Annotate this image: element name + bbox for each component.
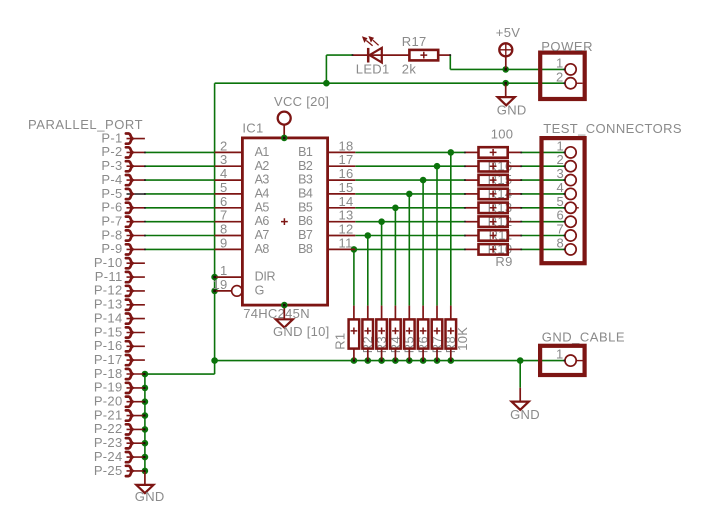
svg-text:1: 1 — [556, 55, 564, 70]
svg-text:P-20: P-20 — [94, 394, 123, 409]
wire net B2 row — [355, 165, 465, 167]
junction B7 drop — [365, 232, 372, 239]
junction pull-down R5 to GND — [406, 357, 413, 364]
svg-text:GND: GND — [135, 489, 165, 504]
svg-text:B1: B1 — [298, 145, 313, 159]
svg-text:P-14: P-14 — [94, 310, 123, 325]
svg-text:G: G — [255, 284, 264, 298]
wire GND net: top rail to POWER pin 2 — [215, 82, 565, 84]
svg-text:VCC [20]: VCC [20] — [274, 94, 329, 109]
svg-text:P-7: P-7 — [101, 214, 122, 229]
svg-text:4: 4 — [557, 180, 565, 195]
wire net B8 drop to pull-down — [353, 249, 355, 305]
wire net B2 drop to pull-down — [436, 166, 438, 305]
wire net B1 drop to pull-down — [450, 152, 452, 305]
svg-text:IC1: IC1 — [242, 121, 263, 136]
IC1 pin 16 B3 — [328, 179, 356, 181]
svg-text:17: 17 — [339, 152, 354, 167]
svg-text:12: 12 — [339, 222, 354, 237]
svg-text:1: 1 — [220, 263, 228, 278]
IC1 pin 11 B8 — [328, 248, 356, 250]
junction pull-down R8 to GND — [448, 357, 455, 364]
svg-text:GND: GND — [497, 102, 527, 117]
svg-text:3: 3 — [557, 166, 565, 181]
svg-text:16: 16 — [339, 166, 354, 181]
svg-text:3: 3 — [220, 152, 228, 167]
IC1 pin 7 A6 — [215, 221, 243, 223]
junction VCC pin — [281, 135, 288, 142]
svg-text:2: 2 — [220, 138, 228, 153]
TEST connector pin 7 — [565, 230, 576, 241]
TEST connector pin 8 — [565, 244, 576, 255]
junction GND pin — [281, 302, 288, 309]
svg-text:2k: 2k — [402, 61, 417, 76]
junction P-20 to GND bus — [142, 398, 149, 405]
junction GND rail corner — [211, 357, 218, 364]
svg-text:R1: R1 — [332, 333, 347, 350]
op-amp/buffer IC1 74HC245N body — [242, 138, 327, 305]
wire net B5 drop to pull-down — [394, 208, 396, 306]
svg-text:R9: R9 — [495, 254, 512, 269]
svg-text:7: 7 — [557, 222, 565, 237]
wire to TEST pin 2 — [521, 165, 565, 167]
IC1 pin 14 B5 — [328, 207, 356, 209]
svg-text:P-24: P-24 — [94, 449, 123, 464]
svg-text:+5V: +5V — [496, 25, 520, 40]
svg-text:14: 14 — [339, 194, 354, 209]
svg-text:P-6: P-6 — [101, 200, 122, 215]
junction pull-down R7 to GND — [434, 357, 441, 364]
svg-text:P-17: P-17 — [94, 352, 123, 367]
IC1 pin 15 B4 — [328, 193, 356, 195]
svg-text:P-12: P-12 — [94, 283, 123, 298]
junction pull-down R2 to GND — [365, 357, 372, 364]
wire net D1 (P-3 to A2) — [145, 165, 215, 167]
junction P-18 to GND bus — [142, 371, 149, 378]
svg-text:POWER: POWER — [541, 39, 593, 54]
wire joints (dark transition pixels) — [283, 137, 286, 140]
svg-text:P-15: P-15 — [94, 324, 123, 339]
wire net B3 row — [355, 179, 465, 181]
svg-text:P-5: P-5 — [101, 186, 122, 201]
wire net D5 (P-7 to A6) — [145, 221, 215, 223]
TEST connector pin 4 — [565, 188, 576, 199]
IC1 origin cross — [281, 218, 288, 225]
svg-text:P-19: P-19 — [94, 380, 123, 395]
svg-text:5: 5 — [220, 180, 228, 195]
svg-text:A2: A2 — [255, 159, 270, 173]
wire to TEST pin 4 — [521, 193, 565, 195]
connector POWER — [540, 53, 585, 99]
junction P-21 to GND bus — [142, 412, 149, 419]
junction B6 drop — [378, 218, 385, 225]
ground under GND_CABLE — [519, 388, 521, 402]
svg-text:TEST_CONNECTORS: TEST_CONNECTORS — [543, 121, 682, 136]
svg-text:P-22: P-22 — [94, 421, 123, 436]
svg-text:11: 11 — [339, 235, 353, 250]
wire net D0 (P-2 to A1) — [145, 151, 215, 153]
IC1 pin 13 B6 — [328, 221, 356, 223]
wire net B7 drop to pull-down — [367, 236, 369, 306]
wire net B1 row — [355, 151, 465, 153]
svg-text:LED1: LED1 — [356, 62, 390, 77]
wire net B7 row — [355, 235, 465, 237]
svg-text:6: 6 — [220, 194, 228, 209]
svg-text:18: 18 — [339, 138, 354, 153]
svg-text:B2: B2 — [298, 159, 313, 173]
resistor R17 — [409, 50, 438, 61]
junction pull-down R3 to GND — [378, 357, 385, 364]
wire net B3 drop to pull-down — [422, 180, 424, 306]
svg-text:8: 8 — [557, 235, 565, 250]
svg-text:4: 4 — [220, 166, 228, 181]
junction G to GND rail — [211, 288, 218, 295]
svg-text:B7: B7 — [298, 228, 313, 242]
wire to TEST pin 5 — [521, 207, 565, 209]
IC1 pin 17 B2 — [328, 165, 356, 167]
wire net B4 drop to pull-down — [408, 194, 410, 306]
IC1 pin 10 GND — [283, 305, 285, 319]
svg-text:2: 2 — [556, 69, 564, 84]
svg-text:1: 1 — [557, 138, 565, 153]
wire GND net: P-18..P-25 bus — [144, 374, 146, 473]
wire net D2 (P-4 to A3) — [145, 179, 215, 181]
TEST connector pin 5 — [571, 207, 579, 209]
LED LED1 — [353, 54, 410, 56]
svg-text:P-8: P-8 — [101, 227, 122, 242]
svg-text:8: 8 — [220, 222, 228, 237]
junction P-22 to GND bus — [142, 426, 149, 433]
svg-text:A8: A8 — [255, 242, 270, 256]
TEST connector pin 3 — [565, 175, 576, 186]
svg-text:P-10: P-10 — [94, 255, 123, 270]
junction B4 drop — [406, 191, 413, 198]
svg-text:A3: A3 — [255, 173, 270, 187]
svg-text:P-23: P-23 — [94, 435, 123, 450]
junction P-25 to GND bus — [142, 468, 149, 475]
svg-text:P-16: P-16 — [94, 338, 123, 353]
TEST connector pin 6 — [565, 216, 576, 227]
junction GND_CABLE drop — [517, 357, 524, 364]
svg-text:B5: B5 — [298, 200, 313, 214]
IC1 pin 2 A1 — [215, 151, 243, 153]
svg-text:GND [10]: GND [10] — [273, 324, 330, 339]
wire net B6 drop to pull-down — [381, 222, 383, 306]
junction GND rail / LED cathode — [323, 80, 330, 87]
wire to TEST pin 1 — [521, 151, 565, 153]
resistor R16 (top of array) row 1 — [465, 151, 478, 153]
IC1 pin 5 A4 — [215, 193, 243, 195]
svg-text:P-25: P-25 — [94, 463, 123, 478]
ground under POWER — [505, 83, 507, 97]
svg-text:100: 100 — [491, 126, 514, 141]
svg-text:B3: B3 — [298, 173, 313, 187]
svg-text:A1: A1 — [255, 145, 270, 159]
svg-text:1: 1 — [556, 346, 564, 361]
junction pull-down R6 to GND — [420, 357, 427, 364]
wire GND net: GND_CABLE drop — [519, 361, 521, 388]
wire net B8 row — [355, 248, 465, 250]
wire GND net: vertical rail — [214, 83, 216, 360]
svg-text:R17: R17 — [402, 34, 427, 49]
svg-text:A6: A6 — [255, 214, 270, 228]
wire net B5 row — [355, 207, 465, 209]
IC1 pin 1 DIR — [215, 276, 243, 278]
svg-text:7: 7 — [220, 208, 228, 223]
wire GND net: LED cathode drop to GND rail — [326, 54, 352, 56]
wire GND net: bottom rail to GND_CABLE — [215, 360, 565, 362]
junction +5V / POWER pin 1 — [502, 66, 509, 73]
wire net D4 (P-6 to A5) — [145, 207, 215, 209]
ground under P-25 — [144, 471, 146, 485]
wire net D3 (P-5 to A4) — [146, 193, 215, 195]
wire to TEST pin 6 — [521, 221, 565, 223]
svg-text:P-9: P-9 — [101, 241, 122, 256]
junction DIR to GND rail — [211, 274, 218, 281]
svg-text:15: 15 — [339, 180, 354, 195]
TEST connector pin 1 — [565, 147, 576, 158]
junction pull-down R4 to GND — [392, 357, 399, 364]
svg-text:6: 6 — [557, 208, 565, 223]
wire net D7 (P-9 to A8) — [145, 248, 215, 250]
svg-text:P-3: P-3 — [101, 158, 122, 173]
svg-text:GND_CABLE: GND_CABLE — [542, 330, 625, 345]
wire to TEST pin 3 — [521, 179, 565, 181]
wire to TEST pin 8 — [521, 248, 565, 250]
wire net D6 (P-8 to A7) — [145, 235, 215, 237]
IC1 pin 8 A7 — [215, 235, 243, 237]
svg-text:DIR: DIR — [255, 270, 276, 284]
svg-text:A5: A5 — [255, 200, 270, 214]
junction B2 drop — [434, 163, 441, 170]
IC1 pin 6 A5 — [215, 207, 243, 209]
resistor R1 10k pull-down — [353, 306, 355, 320]
junction B8 drop — [351, 246, 358, 253]
junction pull-down R1 to GND — [351, 357, 358, 364]
junction GND rail / POWER pin 2 — [502, 80, 509, 87]
junction B3 drop — [420, 177, 427, 184]
svg-text:2: 2 — [557, 152, 565, 167]
svg-text:P-2: P-2 — [101, 144, 122, 159]
svg-text:B8: B8 — [298, 242, 313, 256]
svg-text:GND: GND — [510, 407, 540, 422]
ground symbol at IC1 pin 10 — [276, 319, 293, 327]
junction P-23 to GND bus — [142, 440, 149, 447]
junction P-19 to GND bus — [142, 385, 149, 392]
+5V supply symbol — [499, 43, 512, 56]
wire to TEST pin 7 — [521, 235, 565, 237]
svg-text:5: 5 — [557, 194, 565, 209]
IC1 pin 3 A2 — [215, 165, 243, 167]
svg-text:P-21: P-21 — [94, 407, 123, 422]
svg-text:PARALLEL_PORT: PARALLEL_PORT — [28, 117, 143, 132]
LED1 emission arrows — [366, 40, 378, 46]
svg-text:A4: A4 — [255, 187, 270, 201]
svg-text:P-13: P-13 — [94, 297, 123, 312]
TEST connector pin 2 — [565, 161, 576, 172]
junction B1 drop — [448, 149, 455, 156]
IC1 pin 12 B7 — [328, 235, 356, 237]
svg-text:B6: B6 — [298, 214, 313, 228]
IC1 pin 20 VCC supply — [283, 125, 285, 138]
junction B5 drop — [392, 205, 399, 212]
svg-text:P-4: P-4 — [101, 172, 122, 187]
IC1 pin 19 G (inverted) — [215, 290, 232, 292]
wire +5V net: R17 to POWER pin 1 — [449, 55, 451, 69]
IC1 pin 18 B1 — [328, 151, 356, 153]
wire net B6 row — [355, 221, 465, 223]
wire GND net: P-18 branch — [145, 373, 215, 375]
svg-text:A7: A7 — [255, 228, 270, 242]
IC1 pin 9 A8 — [215, 248, 243, 250]
svg-text:P-11: P-11 — [95, 269, 123, 284]
svg-text:13: 13 — [339, 208, 354, 223]
svg-text:P-18: P-18 — [94, 366, 123, 381]
svg-text:9: 9 — [220, 235, 228, 250]
IC1 pin 4 A3 — [215, 179, 243, 181]
junction P-24 to GND bus — [142, 454, 149, 461]
wire net B4 row — [355, 193, 465, 195]
svg-text:P-1: P-1 — [101, 130, 122, 145]
svg-text:B4: B4 — [298, 187, 313, 201]
